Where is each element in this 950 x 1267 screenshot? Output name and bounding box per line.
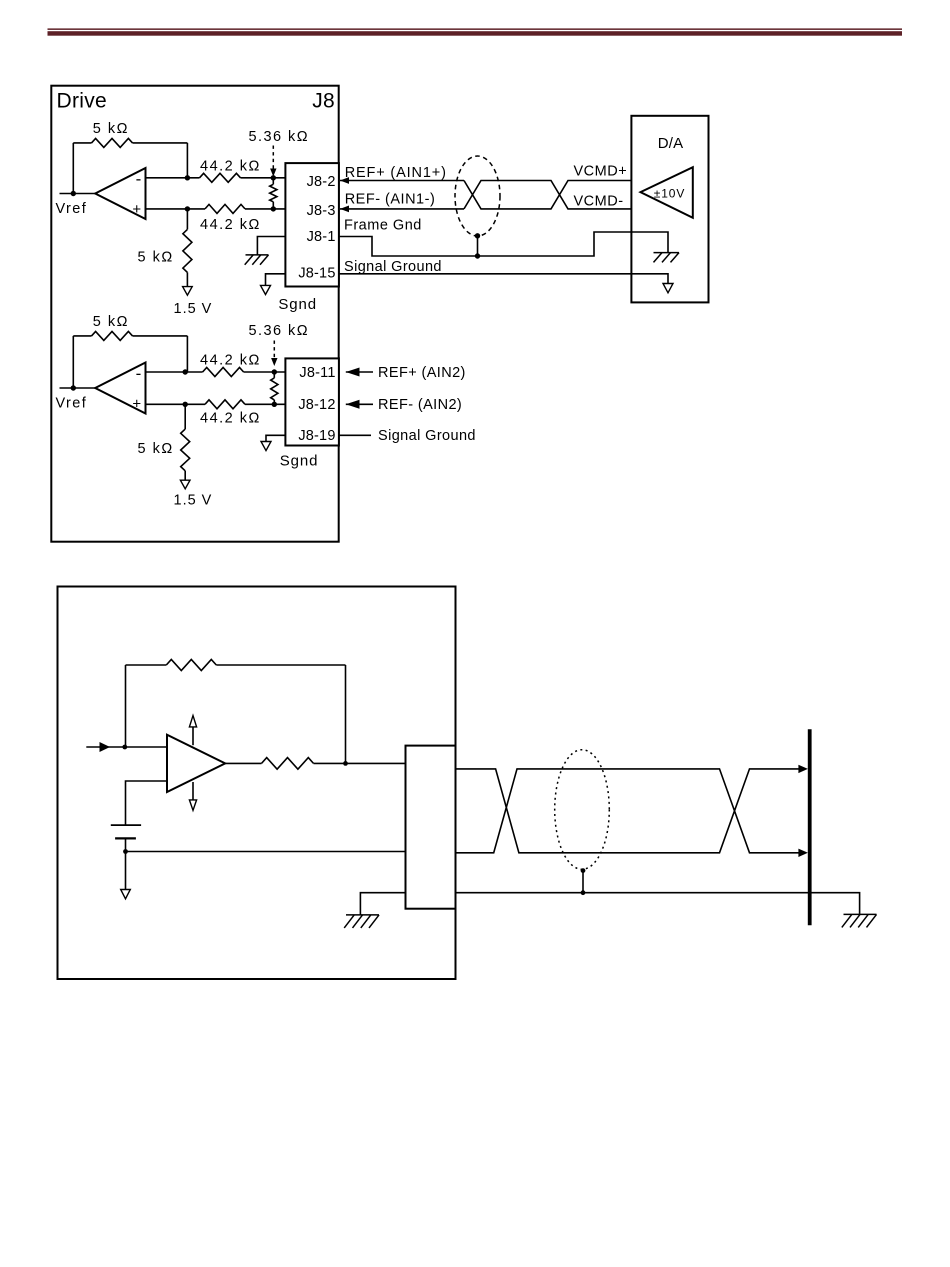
svg-text:5 kΩ: 5 kΩ — [93, 121, 129, 137]
label 5 kOhm feedback (ch1) — [93, 121, 129, 137]
resistor 5.36 kOhm input termination (ch1) — [270, 178, 277, 209]
label REF+ (AIN1+) — [345, 165, 447, 181]
label D/A — [658, 135, 684, 152]
label Vref (ch1) — [56, 201, 88, 217]
cable shield ellipse (upper) — [455, 156, 500, 236]
node: Vref junction dot (ch1) — [71, 191, 76, 196]
op-amp U2 (ch2) — [95, 363, 145, 414]
pin label J8-1 — [307, 229, 336, 245]
op-amp (lower) — [167, 735, 225, 792]
node: Vref junction dot (ch2) — [71, 385, 76, 390]
svg-text:Signal Ground: Signal Ground — [344, 259, 442, 275]
node: 5.36k top dot (ch2) — [272, 369, 277, 374]
node: feedback junction dot (ch2) — [183, 369, 188, 374]
wire: inverting row to connector (ch2) — [244, 371, 286, 373]
wire: feedback top lead (ch2) — [73, 335, 91, 337]
label REF- (AIN1-) — [345, 192, 436, 208]
wire: -supply arrow line (lower) — [192, 782, 194, 800]
node: shield drain top dot (upper) — [475, 233, 480, 238]
node: 1.5V divider tap dot (ch2) — [183, 402, 188, 407]
resistor 44.2 kOhm lower (ch1) — [205, 204, 245, 213]
wire: REF- AIN2 stub — [346, 403, 373, 405]
resistor 44.2 kOhm upper (ch1) — [200, 173, 241, 182]
op-amp U1 (ch1) — [95, 168, 145, 219]
svg-text:44.2 kΩ: 44.2 kΩ — [200, 410, 261, 426]
wire: twisted pair conductor 2 (lower) — [456, 769, 800, 853]
label REF- (AIN2) — [378, 397, 462, 413]
svg-text:5 kΩ: 5 kΩ — [138, 441, 174, 457]
ground: Sgnd symbol (ch2) — [261, 442, 271, 451]
svg-text:VCMD-: VCMD- — [574, 193, 624, 209]
node: input junction dot (lower) — [122, 745, 127, 750]
ground: 1.5V rail symbol (ch2) — [180, 480, 190, 489]
resistor 44.2 kOhm upper (ch2) — [203, 368, 244, 377]
amplifier triangle ±10V — [641, 167, 693, 218]
label Signal Ground (ch2) — [378, 428, 476, 444]
wire: REF- line connector to twist (ch1) — [340, 208, 464, 210]
node: 5.36k top dot (ch1) — [271, 175, 276, 180]
svg-text:-: - — [136, 170, 142, 189]
wire: non-inverting input row (ch1) — [146, 208, 206, 210]
svg-text:Frame Gnd: Frame Gnd — [344, 218, 422, 234]
wire: twisted pair conductor 1 (upper) — [464, 181, 631, 209]
label 5.36 kOhm (ch2) — [249, 323, 310, 339]
ground: frame gnd symbol at D/A — [654, 253, 680, 263]
wire: internal ground row (lower) — [126, 851, 406, 853]
wire: REF+ AIN2 stub — [346, 371, 373, 373]
op-amp plus sign (ch1) — [132, 201, 141, 218]
svg-text:+: + — [132, 396, 141, 413]
resistor 5 kOhm to 1.5V (ch1) — [183, 209, 192, 287]
wire: feedback riser left (ch1) — [72, 143, 74, 194]
arrowhead -supply open (lower) — [189, 800, 196, 810]
label Sgnd (ch2) — [280, 453, 319, 470]
pin label J8-12 — [298, 397, 335, 413]
wire: feedback riser (lower) — [125, 665, 127, 747]
wire: shield drain (upper) — [477, 236, 479, 256]
svg-text:5 kΩ: 5 kΩ — [138, 249, 174, 265]
op-amp minus sign (ch2) — [136, 364, 142, 383]
label 1.5 V (ch1) — [174, 301, 213, 317]
node: shield drain top dot (lower) — [581, 868, 586, 873]
ground: frame gnd symbol (lower left) — [344, 915, 379, 928]
label Sgnd (ch1) — [278, 296, 317, 313]
wire: inverting input row (ch2) — [146, 371, 203, 373]
svg-text:REF- (AIN1-): REF- (AIN1-) — [345, 192, 436, 208]
node: 1.5V divider tap dot (ch1) — [185, 206, 190, 211]
connector block (lower) — [406, 746, 456, 909]
svg-text:REF+ (AIN2): REF+ (AIN2) — [378, 365, 466, 381]
pin label J8-3 — [307, 203, 336, 219]
svg-text:Vref: Vref — [56, 396, 88, 412]
wire: Vref output stub (ch2) — [60, 387, 96, 389]
D/A box — [631, 116, 708, 303]
label 5.36 kOhm (ch1) — [249, 129, 310, 145]
wire: +supply arrow line (lower) — [192, 727, 194, 745]
svg-text:VCMD+: VCMD+ — [574, 163, 628, 179]
top page rule (thick bar) — [48, 31, 903, 36]
svg-text:J8-1: J8-1 — [307, 229, 336, 245]
label 44.2 kOhm upper (ch1) — [200, 159, 261, 175]
arrowhead pair bottom at bar (lower) — [798, 849, 808, 857]
wire: gnd to frame-gnd hatch (lower left) — [360, 893, 405, 915]
pin label J8-19 — [298, 428, 335, 444]
label VCMD- — [574, 193, 624, 209]
wire: feedback top lead (ch1) — [73, 142, 91, 144]
wire: feedback riser left (ch2) — [72, 336, 74, 388]
resistor 5.36 kOhm input termination (ch2) — [271, 372, 278, 404]
label 5 kOhm vertical (ch2) — [138, 441, 174, 457]
wire: feedback drop to inverting input (ch1) — [186, 143, 188, 178]
svg-text:Signal Ground: Signal Ground — [378, 428, 476, 444]
ground: Sgnd symbol (ch1) — [261, 285, 271, 294]
svg-text:1.5 V: 1.5 V — [174, 493, 213, 509]
node: 5.36k bottom dot (ch1) — [271, 206, 276, 211]
wire: non-inverting row to connector (ch2) — [245, 403, 285, 405]
op-amp plus sign (ch2) — [132, 396, 141, 413]
label 44.2 kOhm upper (ch2) — [200, 352, 261, 368]
svg-text:±10V: ±10V — [654, 187, 686, 201]
battery short plate (lower) — [115, 837, 136, 839]
svg-text:J8-11: J8-11 — [299, 365, 335, 381]
wire: feedback top right lead (ch2) — [133, 335, 188, 337]
battery long plate (lower) — [111, 824, 141, 826]
wire: J8-19 sgnd stub inside drive — [266, 435, 285, 441]
wire: feedback drop to inverting input (ch2) — [186, 336, 188, 372]
node: ground row dot (lower) — [123, 849, 128, 854]
node: shield drain to frame gnd dot (upper) — [475, 253, 480, 258]
svg-text:5.36 kΩ: 5.36 kΩ — [249, 129, 310, 145]
wire: J8-15 sgnd stub inside drive — [266, 274, 286, 286]
wire: feedback top lead (lower) — [126, 664, 167, 666]
wire: non-inverting row to connector (ch1) — [245, 208, 285, 210]
resistor 5 kOhm feedback (ch1) — [92, 138, 133, 147]
svg-text:J8-12: J8-12 — [298, 397, 335, 413]
wire: battery to ground row (lower) — [125, 838, 127, 889]
ground: frame gnd symbol (lower right) — [842, 914, 877, 927]
node: feedback junction dot (ch1) — [185, 175, 190, 180]
svg-text:J8-3: J8-3 — [307, 203, 336, 219]
svg-text:REF+ (AIN1+): REF+ (AIN1+) — [345, 165, 447, 181]
label 44.2 kOhm lower (ch1) — [200, 217, 261, 233]
wire: REF+ line connector to twist (ch1) — [340, 180, 464, 182]
node: shield drain bottom dot (lower) — [581, 890, 586, 895]
svg-text:44.2 kΩ: 44.2 kΩ — [200, 352, 261, 368]
label 44.2 kOhm lower (ch2) — [200, 410, 261, 426]
wire: output to connector (lower) — [314, 762, 406, 764]
arrowhead +supply open (lower) — [189, 716, 196, 727]
ground: battery gnd symbol (lower) — [121, 890, 131, 899]
label VCMD+ — [574, 163, 628, 179]
label REF+ (AIN2) — [378, 365, 466, 381]
svg-text:Drive: Drive — [57, 90, 108, 113]
svg-text:Sgnd: Sgnd — [278, 296, 317, 313]
svg-text:D/A: D/A — [658, 135, 684, 152]
svg-text:Sgnd: Sgnd — [280, 453, 319, 470]
svg-text:+: + — [132, 201, 141, 218]
wire: inverting input row (ch1) — [146, 177, 200, 179]
wire: shield drain (lower) — [582, 871, 584, 893]
ground: 1.5V rail symbol (ch1) — [183, 287, 193, 296]
svg-text:5.36 kΩ: 5.36 kΩ — [249, 323, 310, 339]
resistor 5 kOhm to 1.5V (ch2) — [181, 404, 190, 480]
svg-text:J8-15: J8-15 — [298, 266, 335, 282]
wire: feedback top right lead (ch1) — [133, 142, 188, 144]
wire: feedback top right (lower) — [216, 664, 345, 666]
arrowhead pair top at bar (lower) — [798, 765, 808, 773]
callout dashed arrow 5.36k (ch2) — [271, 341, 277, 367]
arrow into J8-11 — [346, 368, 360, 377]
wire: input stub (lower) — [86, 746, 167, 748]
wire: J8-19 signal ground stub — [339, 434, 371, 436]
wire: frame gnd run to D/A — [339, 232, 668, 256]
svg-text:44.2 kΩ: 44.2 kΩ — [200, 159, 261, 175]
label Drive — [57, 90, 108, 113]
svg-text:5 kΩ: 5 kΩ — [93, 314, 129, 330]
arrow input (lower) — [100, 742, 111, 752]
ground: signal gnd symbol at D/A — [663, 284, 673, 293]
node: 5.36k bottom dot (ch2) — [272, 402, 277, 407]
label ±10V — [654, 187, 686, 201]
label J8 — [312, 90, 335, 113]
svg-text:-: - — [136, 364, 142, 383]
wire: signal ground run to D/A — [339, 274, 668, 284]
arrow into J8-2 — [340, 177, 349, 184]
op-amp minus sign (ch1) — [136, 170, 142, 189]
wire: twisted pair conductor 1 (lower) — [456, 769, 800, 853]
terminator bar (lower) — [808, 729, 812, 925]
label 5 kOhm feedback (ch2) — [93, 314, 129, 330]
wire: output lead (lower) — [225, 762, 261, 764]
svg-text:REF- (AIN2): REF- (AIN2) — [378, 397, 462, 413]
svg-text:44.2 kΩ: 44.2 kΩ — [200, 217, 261, 233]
label 5 kOhm vertical (ch1) — [138, 249, 174, 265]
label Signal Ground (ch1) — [344, 259, 442, 275]
wire: twisted pair conductor 2 (upper) — [464, 181, 631, 209]
node: output junction dot (lower) — [343, 761, 348, 766]
cable shield ellipse (lower) — [555, 750, 610, 870]
svg-text:Vref: Vref — [56, 201, 88, 217]
resistor feedback (lower) — [166, 660, 216, 671]
svg-text:J8: J8 — [312, 90, 335, 113]
connector J8 block (ch2) — [285, 358, 339, 445]
label Vref (ch2) — [56, 396, 88, 412]
wire: J8-1 frame gnd stub inside drive — [257, 237, 285, 255]
label 1.5 V (ch2) — [174, 493, 213, 509]
lower enclosure box — [58, 587, 456, 980]
resistor 5 kOhm feedback (ch2) — [92, 331, 133, 340]
svg-text:J8-2: J8-2 — [307, 174, 336, 190]
resistor 44.2 kOhm lower (ch2) — [205, 400, 245, 409]
resistor output series (lower) — [262, 758, 314, 770]
top page rule (thin line) — [48, 28, 903, 30]
wire: non-inverting input row (ch2) — [146, 403, 206, 405]
label Frame Gnd — [344, 218, 422, 234]
ground: frame gnd symbol inside drive — [245, 255, 269, 265]
pin label J8-11 — [299, 365, 335, 381]
svg-text:J8-19: J8-19 — [298, 428, 335, 444]
connector J8 block (ch1) — [285, 163, 339, 286]
wire: inverting row to connector (ch1) — [241, 177, 286, 179]
arrow into J8-3 — [340, 206, 349, 213]
svg-text:1.5 V: 1.5 V — [174, 301, 213, 317]
pin label J8-2 — [307, 174, 336, 190]
callout dashed arrow 5.36k (ch1) — [270, 146, 276, 177]
arrow into J8-12 — [346, 400, 360, 409]
wire: Vref output stub (ch1) — [60, 193, 96, 195]
wire: shield ground run (lower) — [456, 893, 860, 914]
pin label J8-15 — [298, 266, 335, 282]
drive enclosure box — [51, 86, 338, 542]
wire: feedback drop (lower) — [345, 665, 347, 763]
wire: lower + input lead — [126, 781, 168, 825]
